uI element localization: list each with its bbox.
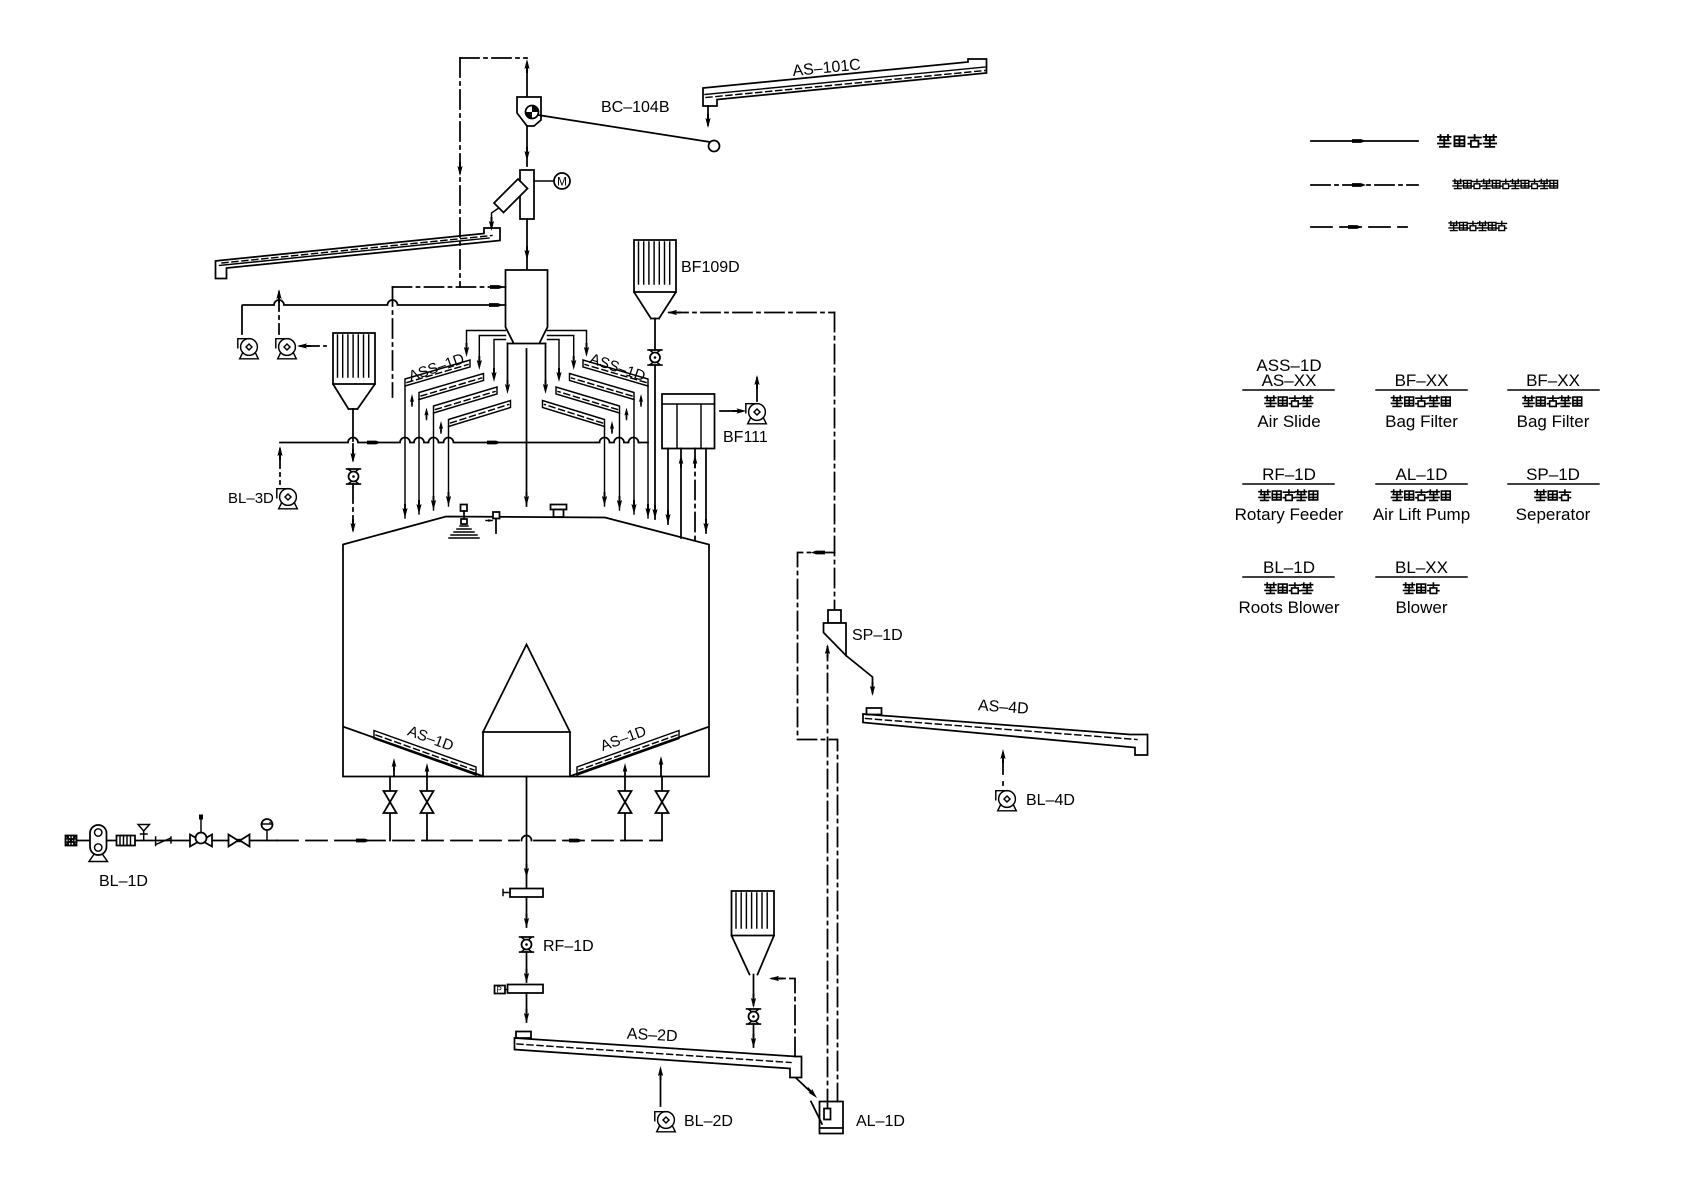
manifold pipe 1: [464, 331, 506, 358]
svg-text:RF–1D: RF–1D: [543, 938, 594, 955]
svg-text:AS–2D: AS–2D: [626, 1026, 678, 1046]
label compressed air flow (CJK): [1449, 222, 1507, 231]
wire slide drop 2: [416, 400, 421, 515]
rotary feeder below bottom BF: [747, 1009, 761, 1024]
legend entry rotary feeder: [1235, 465, 1344, 524]
air slide AS-101C: [703, 59, 987, 106]
wire slide drop 3: [431, 413, 436, 510]
label BL-4D: [1026, 792, 1075, 809]
wire AS-2D vent to bottom BF: [769, 976, 795, 1057]
gate valve: [229, 835, 250, 847]
aeration header from BL-3D: [280, 438, 648, 445]
wire recirculation downcomer dash-dot: [457, 58, 462, 287]
bag filter BF (left, on silo): [333, 333, 375, 441]
roots blower BL-1D: [77, 825, 117, 862]
wire SP-1D discharge to AS-4D: [846, 656, 875, 697]
rotary feeder on left BF: [347, 469, 361, 484]
air slide to adjacent silo (from diverter): [216, 228, 501, 279]
svg-text:BL–3D: BL–3D: [228, 490, 274, 507]
label BC-104B: [601, 99, 670, 116]
wire dusty air header y287: [393, 285, 506, 289]
wire RF-1D to gate 2: [524, 952, 529, 983]
svg-text:Seperator: Seperator: [1516, 505, 1591, 524]
label AL-1D: [856, 1113, 905, 1130]
label AS-1D right: [598, 723, 649, 755]
control valve with actuator: [190, 815, 212, 847]
wire air lift bypass loop: [798, 551, 838, 1102]
pressure gauge: [262, 819, 273, 841]
legend entry separator: [1508, 465, 1599, 524]
bag filter BF (bottom): [732, 891, 775, 1005]
manifold pipe 2: [477, 336, 506, 371]
air slide AS-1D right: [577, 731, 679, 776]
wire slide drop 1: [402, 386, 407, 518]
legend entry roots blower: [1238, 558, 1339, 617]
label ASS-1D right: [587, 350, 647, 385]
label material flow (CJK): [1438, 135, 1496, 147]
svg-text:Rotary Feeder: Rotary Feeder: [1235, 505, 1344, 524]
svg-text:Bag Filter: Bag Filter: [1385, 412, 1458, 431]
silo discharge valve stub 1: [384, 777, 397, 841]
wire BL-2D riser: [658, 1066, 663, 1106]
svg-text:BL–1D: BL–1D: [1263, 558, 1315, 577]
belt conveyor BC-104B belt line: [538, 115, 710, 142]
svg-text:BF–XX: BF–XX: [1526, 371, 1580, 390]
label RF-1D: [543, 938, 594, 955]
wire left BF discharge: [350, 444, 355, 463]
wire elevator riser: [524, 59, 529, 97]
svg-text:RF–1D: RF–1D: [1262, 465, 1316, 484]
wire gate 2 to AS-2D: [524, 993, 529, 1023]
silo discharge valve stub 4: [656, 777, 669, 841]
wire slide drop 4: [446, 427, 451, 507]
wire SP-1D exhaust riser dash-dot: [834, 313, 836, 611]
wire dusty air line to BF109D: [667, 310, 835, 315]
svg-text:AS–XX: AS–XX: [1262, 371, 1317, 390]
wire aeration arrows under AS-1D slides: [392, 756, 664, 777]
slide gate 2 with positioner P: [495, 985, 544, 995]
check valve: [156, 837, 171, 846]
belt conveyor BC-104B head pulley: [517, 97, 541, 126]
label BL-2D: [684, 1113, 733, 1130]
air slide AS-2D: [515, 1032, 802, 1078]
svg-text:AS–4D: AS–4D: [977, 697, 1029, 717]
legend line: compressed air flow: [1311, 225, 1407, 229]
roots blower BL-1D air filter: [66, 836, 77, 846]
silencer on BL-1D line: [117, 836, 278, 846]
wire BF to rotary feeder: [751, 994, 756, 1008]
legend entry air slide: [1243, 356, 1334, 431]
svg-text:Air Slide: Air Slide: [1257, 412, 1320, 431]
pressure tap on silo top: [486, 512, 500, 533]
wire BC-104B to diverter arrow: [524, 126, 529, 166]
air slide AS-1D left: [374, 731, 476, 776]
legend line: dusty air flow: [1311, 183, 1418, 187]
bag filter BF109D: [634, 240, 676, 349]
manhole on silo top: [551, 505, 567, 518]
wire top recirculation dash-dot: [460, 57, 527, 59]
silo floor slopes: [344, 727, 708, 776]
wire AS-101C discharge arrow: [705, 106, 710, 128]
air slide AS-4D: [863, 708, 1148, 755]
label BL-3D: [228, 490, 274, 507]
svg-text:Roots Blower: Roots Blower: [1238, 598, 1339, 617]
wire blower B2 outlet stub: [297, 343, 326, 348]
label dusty air flow (CJK): [1453, 180, 1558, 189]
wire to rotary feeder RF-1D: [524, 897, 529, 928]
blower BL-2D: [655, 1112, 676, 1132]
blower BL-4D: [996, 791, 1017, 811]
wire BL-4D riser: [1000, 749, 1005, 785]
label SP-1D: [852, 627, 903, 644]
svg-text:BL–XX: BL–XX: [1395, 558, 1448, 577]
legend line: material flow: [1311, 139, 1418, 143]
svg-text:BF109D: BF109D: [681, 259, 740, 276]
svg-text:BL–2D: BL–2D: [684, 1113, 733, 1130]
wire silo center outlet: [524, 777, 529, 889]
svg-text:Air Lift Pump: Air Lift Pump: [1373, 505, 1470, 524]
label AS-101C: [792, 56, 862, 79]
motor M on diverter: [534, 173, 570, 189]
bag filter BF111: [662, 394, 715, 449]
silo discharge valve stub 3: [619, 763, 632, 841]
air slide bank ASS-1D right (mirror): [543, 331, 651, 519]
blower B111: [746, 404, 767, 424]
legend entry bag filter 1: [1376, 371, 1467, 431]
manifold pipe 3: [491, 340, 505, 383]
wire BF109D to silo: [652, 366, 657, 520]
belt conveyor BC-104B tail pulley: [709, 141, 720, 152]
distribution box below hopper: [505, 344, 548, 395]
legend entry air lift pump: [1373, 465, 1470, 524]
silo discharge valve stub 2: [421, 763, 434, 841]
air slide ASS-1D #2: [419, 374, 484, 400]
label BF111: [723, 429, 768, 446]
receiving hopper above silo: [506, 270, 548, 344]
svg-text:Blower: Blower: [1396, 598, 1448, 617]
rotary feeder RF-1D: [520, 937, 534, 952]
air slide bank ASS-1D left: [402, 331, 510, 519]
wire diverter to hopper arrow: [524, 219, 529, 269]
label BL-1D: [99, 873, 148, 890]
label AS-2D: [626, 1026, 678, 1046]
separator SP-1D: [824, 610, 847, 656]
blower B2: [276, 339, 297, 359]
wire blower B2 riser: [276, 289, 281, 334]
rotary feeder on BF109D: [648, 350, 662, 365]
svg-text:Bag Filter: Bag Filter: [1517, 412, 1590, 431]
wire inter-slide aeration arrows: [410, 394, 443, 433]
air lift pump AL-1D: [811, 1102, 843, 1134]
blower B1: [238, 339, 258, 359]
svg-text:SP–1D: SP–1D: [852, 627, 903, 644]
label AS-1D left: [405, 723, 456, 755]
wire BF111 down lines: [665, 449, 708, 542]
wire BL-3D riser: [277, 446, 282, 484]
air slide ASS-1D #1: [405, 360, 470, 386]
svg-text:M: M: [557, 175, 567, 189]
wire air lift conveying pipe: [825, 644, 830, 1109]
wire AS-2D to AL-1D chute arrow: [796, 1078, 819, 1100]
label AS-4D: [977, 697, 1029, 717]
svg-text:BF–XX: BF–XX: [1395, 371, 1449, 390]
svg-text:SP–1D: SP–1D: [1526, 465, 1580, 484]
svg-text:BL–4D: BL–4D: [1026, 792, 1075, 809]
label ASS-1D left: [407, 350, 467, 385]
two-way diverter valve: [492, 170, 535, 224]
svg-text:P: P: [497, 986, 502, 995]
wire left BF to silo dash-dot: [350, 484, 355, 533]
wire center drop line to silo: [524, 349, 529, 506]
homogenizing silo body: [343, 517, 709, 777]
wire material air line y305: [242, 300, 506, 334]
level sensor on silo top: [449, 505, 479, 539]
wire rotary feeder to AS-2D: [751, 1024, 756, 1048]
svg-text:BF111: BF111: [723, 429, 768, 446]
compressed air header y840: [277, 836, 662, 843]
air slide ASS-1D #4: [449, 401, 511, 427]
legend entry bag filter 2: [1508, 371, 1599, 431]
wire BF111 to blower: [720, 408, 747, 413]
wire diverter left leg arrow: [489, 217, 494, 231]
air slide ASS-1D #3: [434, 387, 498, 413]
svg-text:AL–1D: AL–1D: [1396, 465, 1448, 484]
label BF109D: [681, 259, 740, 276]
svg-text:AL–1D: AL–1D: [856, 1113, 905, 1130]
legend entry blower: [1376, 558, 1467, 617]
blower BL-3D: [277, 489, 298, 509]
silo inner cone: [483, 645, 570, 777]
svg-text:BC–104B: BC–104B: [601, 99, 670, 116]
slide gate 1 below silo: [503, 889, 543, 898]
relief valve: [138, 825, 150, 841]
wire branch x392: [392, 287, 394, 397]
wire blower B111 exhaust: [754, 375, 759, 401]
svg-text:BL–1D: BL–1D: [99, 873, 148, 890]
